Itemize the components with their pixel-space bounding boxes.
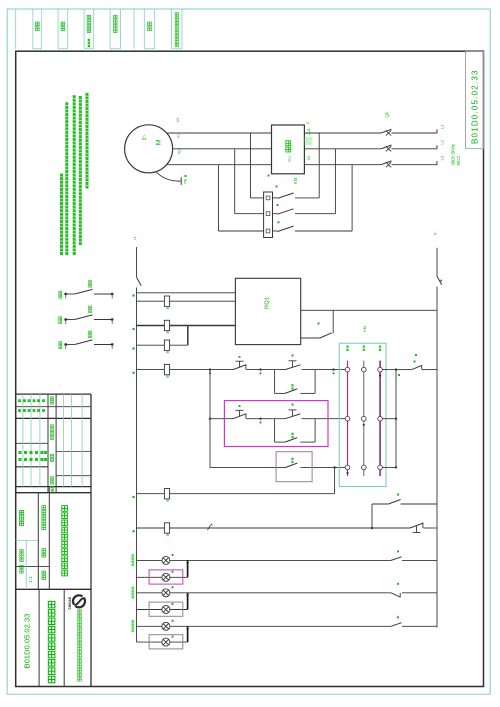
svg-text:B01D0.05.02.33: B01D0.05.02.33 [471, 69, 480, 144]
svg-text:3~: 3~ [142, 135, 148, 141]
svg-text:RQ1: RQ1 [265, 297, 271, 309]
svg-text:KM: KM [293, 177, 298, 184]
svg-text:MCC: MCC [456, 156, 461, 166]
svg-text:L1: L1 [133, 236, 137, 240]
svg-text:380V 50Hz: 380V 50Hz [451, 144, 456, 166]
svg-text:CHINAE: CHINAE [68, 596, 72, 609]
svg-text:1:1: 1:1 [28, 576, 33, 583]
svg-text:V1: V1 [177, 134, 181, 138]
svg-text:RQ1: RQ1 [288, 156, 292, 163]
svg-text:03: 03 [307, 156, 311, 160]
svg-text:PE: PE [184, 178, 188, 184]
svg-text:U1: U1 [176, 118, 180, 122]
svg-text:L1: L1 [440, 124, 445, 129]
svg-text:B01D0.05.02.33: B01D0.05.02.33 [23, 614, 32, 669]
svg-text:QF: QF [385, 111, 390, 117]
svg-text:KM: KM [363, 326, 367, 331]
svg-text:W1: W1 [177, 149, 181, 154]
svg-text:M: M [156, 140, 163, 146]
svg-text:2U1: 2U1 [307, 128, 311, 135]
svg-text:L3: L3 [440, 155, 445, 160]
svg-text:L2: L2 [440, 139, 445, 144]
